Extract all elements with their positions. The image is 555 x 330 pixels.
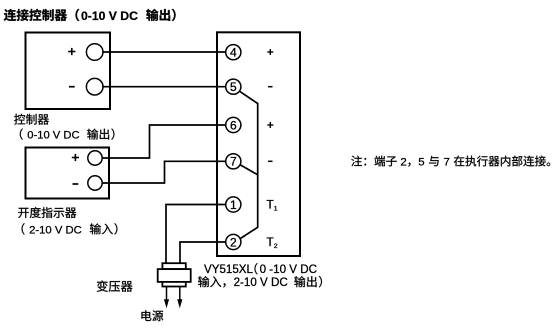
controller plus terminal circle	[86, 44, 103, 61]
controller plus sign	[68, 48, 75, 55]
power arrow right	[177, 287, 182, 309]
svg-text:2-10 V DC: 2-10 V DC	[29, 224, 82, 236]
svg-text:6: 6	[230, 118, 237, 132]
label VY515XL line2	[198, 276, 322, 289]
wire controller- to terminal 5	[102, 86, 225, 88]
svg-text:2: 2	[274, 243, 278, 250]
indicator minus terminal circle	[88, 176, 102, 190]
svg-text:2: 2	[400, 156, 406, 168]
svg-text:7: 7	[230, 155, 237, 169]
title	[4, 9, 176, 23]
svg-text:2: 2	[230, 235, 237, 249]
internal connection wire 5 to 2	[240, 91, 258, 238]
terminal 2 circle	[226, 234, 241, 249]
svg-text:0-10 V DC: 0-10 V DC	[27, 130, 79, 142]
label indicator range	[22, 223, 118, 236]
wire terminal 1 to transformer	[166, 205, 226, 264]
controller minus sign	[69, 86, 75, 88]
terminal 6 circle	[226, 117, 241, 132]
actuator label minus T5	[268, 86, 272, 88]
svg-text:2-10 V DC: 2-10 V DC	[234, 276, 288, 289]
terminal 4 circle	[226, 45, 241, 60]
svg-text:VY515XL: VY515XL	[204, 263, 254, 276]
svg-text:5: 5	[418, 156, 424, 168]
svg-text:7: 7	[444, 156, 450, 168]
actuator label minus T7	[268, 160, 272, 162]
indicator minus sign	[73, 183, 79, 185]
terminal 7 circle	[226, 154, 241, 169]
power arrow left	[164, 287, 169, 309]
label controller	[14, 114, 49, 125]
wire indicator- to terminal 7	[102, 161, 225, 183]
wire terminal 2 to transformer	[180, 242, 226, 264]
actuator box VY515XL	[217, 32, 300, 256]
label power	[141, 310, 163, 321]
transformer symbol	[158, 263, 191, 286]
wire controller+ to terminal 4	[102, 51, 225, 53]
indicator plus sign	[72, 154, 79, 161]
svg-text:1: 1	[274, 206, 278, 213]
svg-text:1: 1	[230, 198, 237, 212]
actuator label plus T6	[267, 122, 273, 128]
terminal 5 circle	[226, 79, 241, 94]
wire indicator+ to terminal 6	[102, 125, 225, 158]
actuator label plus T4	[267, 49, 273, 55]
svg-text:0-10 V DC: 0-10 V DC	[81, 9, 138, 23]
svg-text:0 -10 V DC: 0 -10 V DC	[260, 263, 317, 276]
indicator box	[26, 148, 110, 199]
internal connection wire branch 7	[241, 165, 258, 175]
label VY515XL line1	[204, 263, 317, 276]
label indicator	[18, 207, 76, 218]
svg-text:4: 4	[230, 46, 237, 60]
controller minus terminal circle	[86, 78, 103, 95]
note	[351, 156, 550, 169]
label transformer	[97, 280, 133, 291]
svg-text:5: 5	[230, 80, 237, 94]
label controller range	[20, 128, 115, 141]
indicator plus terminal circle	[88, 151, 102, 165]
terminal 1 circle	[226, 197, 241, 212]
controller box	[26, 33, 111, 110]
